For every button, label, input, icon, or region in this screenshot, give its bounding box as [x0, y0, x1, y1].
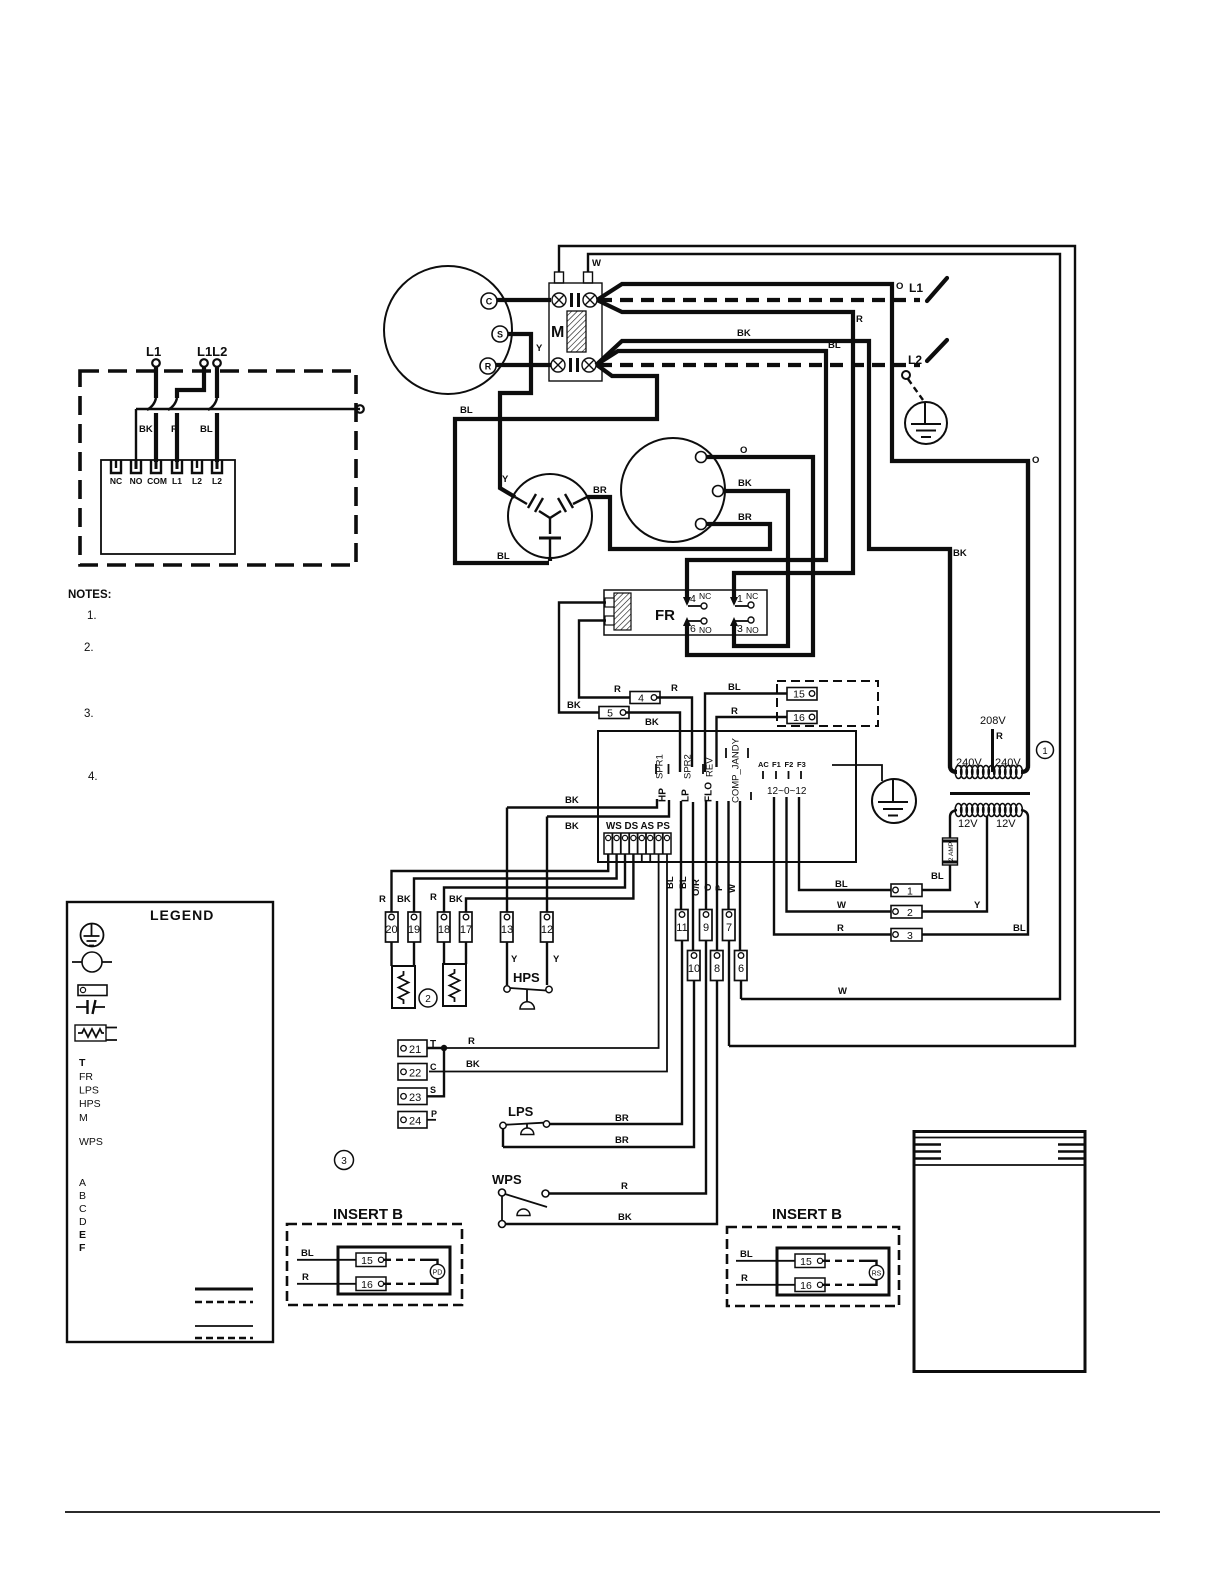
transformer primary right lead	[1021, 461, 1028, 772]
switch blade L2	[927, 340, 947, 361]
ground symbol mid right	[872, 779, 916, 823]
nameplate header line 1	[914, 1137, 1085, 1139]
svg-text:5: 5	[607, 708, 613, 720]
svg-text:R: R	[621, 1181, 628, 1192]
terminal L2	[212, 460, 222, 473]
svg-text:R: R	[731, 706, 738, 717]
svg-text:WPS: WPS	[492, 1172, 522, 1187]
svg-text:R: R	[671, 683, 678, 694]
svg-text:BL: BL	[728, 682, 741, 693]
svg-text:12: 12	[541, 924, 553, 936]
svg-text:BL: BL	[828, 340, 841, 351]
svg-text:WS DS AS PS: WS DS AS PS	[606, 821, 670, 832]
terminal 18	[438, 912, 451, 942]
insert terminals dashed box	[777, 681, 878, 726]
wire terminal 7 down to right loop	[728, 941, 730, 1047]
svg-text:O: O	[896, 281, 903, 292]
svg-text:7: 7	[726, 922, 732, 934]
wire R strip cell7 to T junction	[444, 854, 659, 1048]
node junction dot right of enclosure	[356, 405, 364, 413]
insert B left dashed links	[384, 1259, 424, 1261]
terminal 9	[700, 910, 713, 941]
heater element right	[443, 964, 466, 1006]
node L2 ground terminal	[902, 371, 910, 379]
svg-text:13: 13	[501, 924, 513, 936]
svg-text:24: 24	[409, 1116, 421, 1128]
wire strip cell4 to terminal 17	[466, 854, 633, 913]
svg-text:2 AMP: 2 AMP	[948, 842, 955, 861]
wire W top frame inner to terminal 6 loop	[588, 254, 1060, 999]
wire BR from run cap to blower	[587, 497, 770, 549]
insert B left terminal 16	[356, 1277, 386, 1291]
terminal 24	[398, 1112, 427, 1129]
transformer secondary center tap Y to terminal 2	[922, 816, 987, 912]
node L1 supply terminal	[152, 359, 160, 367]
wire O/R board FLO to terminal 9	[705, 801, 707, 910]
wire BK strip cell8 to terminal 22	[429, 854, 667, 1072]
wire BL board to terminal 15	[705, 694, 787, 773]
terminal 16	[787, 711, 817, 724]
terminal 7	[723, 910, 736, 941]
svg-text:6: 6	[690, 623, 696, 635]
legend terminal box symbol	[78, 985, 107, 996]
svg-text:C: C	[486, 297, 493, 307]
svg-text:BR: BR	[593, 485, 607, 496]
note marker 1	[1037, 742, 1054, 759]
wire dashed to ground	[908, 379, 923, 400]
svg-text:R: R	[468, 1036, 475, 1047]
wire P board COMP to terminal 7	[727, 801, 729, 910]
wire R board to terminal 16	[717, 717, 788, 767]
svg-text:HPS: HPS	[513, 970, 540, 985]
svg-text:COM: COM	[147, 476, 167, 486]
wire strip cell1 to terminal 20	[392, 854, 609, 913]
transformer secondary coil	[955, 804, 1022, 817]
svg-text:3.: 3.	[84, 708, 94, 720]
time clock terminal box	[101, 460, 235, 554]
svg-text:L2: L2	[192, 476, 202, 486]
terminal 1	[891, 884, 922, 897]
wire BK from L1 through switch to COM	[154, 367, 158, 398]
svg-text:2: 2	[907, 907, 913, 919]
svg-text:L2: L2	[212, 476, 222, 486]
wire 23 to T junction	[427, 1048, 444, 1096]
svg-text:W: W	[838, 986, 847, 997]
svg-text:O/R: O/R	[691, 879, 702, 896]
wire R from contactor top to FR contact 1NC	[597, 300, 853, 599]
svg-text:LPS: LPS	[79, 1085, 99, 1097]
wire Y terminal 13 to HPS	[506, 942, 508, 985]
svg-text:INSERT B: INSERT B	[333, 1206, 403, 1223]
wire terminal 5 to board pin SPR2 left	[626, 713, 680, 773]
svg-text:8: 8	[714, 963, 720, 975]
terminal NC	[111, 460, 121, 473]
wire strip cell5 stub	[641, 854, 643, 861]
svg-text:A: A	[79, 1177, 86, 1189]
run capacitor bottom section	[549, 518, 551, 558]
terminal COM	[151, 460, 161, 473]
contactor M box	[549, 283, 602, 381]
svg-text:Y: Y	[511, 954, 518, 965]
svg-text:BL: BL	[835, 879, 848, 890]
wire Y from S to run capacitor	[500, 334, 531, 497]
wire run cap loop from contactor bottom	[455, 365, 657, 563]
contactor coil stub left	[555, 272, 564, 283]
wire R to contactor	[496, 363, 551, 367]
svg-text:BK: BK	[738, 478, 752, 489]
svg-text:22: 22	[409, 1068, 421, 1080]
board terminal strip WS DS AS PS	[604, 833, 671, 854]
contactor contact top	[572, 293, 579, 307]
legend line sample thin	[195, 1325, 253, 1327]
motor terminal R	[480, 358, 496, 374]
svg-text:BL: BL	[301, 1248, 314, 1259]
terminal 21	[398, 1040, 427, 1057]
svg-text:T: T	[79, 1057, 86, 1069]
wire L2 dashed feed	[599, 363, 920, 367]
transformer primary coil	[955, 766, 1022, 779]
terminal NO	[131, 460, 141, 473]
svg-text:BK: BK	[397, 894, 411, 905]
svg-text:R: R	[837, 923, 844, 934]
svg-text:Y: Y	[502, 474, 509, 485]
svg-text:SPR2: SPR2	[683, 754, 694, 779]
wire 24 stub	[427, 1119, 436, 1121]
motor terminal S	[492, 326, 508, 342]
wire BK lower-left2 to HP pin right	[547, 800, 669, 817]
wire W board COMP to terminal 6	[739, 801, 741, 951]
wire NO branch horizontal	[136, 409, 360, 462]
svg-text:L1: L1	[172, 476, 182, 486]
insert B right dashed links	[823, 1260, 863, 1262]
terminal 22	[398, 1064, 427, 1081]
wire cap bottom to BL run	[548, 558, 552, 561]
svg-text:C: C	[430, 1062, 437, 1072]
svg-text:B: B	[79, 1190, 86, 1202]
wire BK terminal 8 to WPS return	[506, 981, 717, 1225]
svg-text:BL: BL	[931, 871, 944, 882]
svg-text:9: 9	[703, 922, 709, 934]
wire L1 dashed feed	[599, 298, 920, 302]
wire BL board LP to terminal 10	[692, 802, 694, 951]
terminal 4	[630, 692, 660, 704]
nameplate header line 2	[914, 1164, 1085, 1166]
blower terminal O	[696, 452, 707, 463]
wire FR coil lower to terminal 4	[579, 621, 630, 698]
svg-text:6: 6	[738, 963, 744, 975]
wire strip cell3 to terminal 18	[444, 854, 625, 913]
wire BR terminal 10 to LPS return	[503, 981, 694, 1148]
svg-text:R: R	[996, 731, 1003, 742]
legend line sample thick	[195, 1288, 253, 1291]
wire LPS left contact return	[502, 1129, 504, 1147]
wire BK from contactor bottom to transformer primary left	[596, 341, 950, 768]
terminal 11	[676, 910, 689, 941]
svg-text:4.: 4.	[88, 771, 98, 783]
blower motor circle	[621, 438, 725, 542]
terminal 15	[787, 688, 817, 701]
svg-text:S: S	[430, 1085, 436, 1095]
svg-text:R: R	[430, 892, 437, 903]
wire strip cell6 stub	[649, 854, 651, 861]
svg-text:P: P	[714, 884, 725, 891]
svg-text:3: 3	[341, 1156, 347, 1167]
legend capacitor symbol	[76, 1006, 105, 1008]
svg-text:BK: BK	[565, 821, 579, 832]
svg-text:O: O	[740, 445, 747, 456]
svg-text:12V: 12V	[958, 818, 978, 830]
blower terminal BR	[696, 519, 707, 530]
svg-text:NC: NC	[746, 591, 758, 601]
insert B right inner box	[777, 1248, 889, 1295]
wire W terminal 6 down to right loop	[740, 981, 742, 1000]
svg-text:BK: BK	[565, 795, 579, 806]
svg-text:NO: NO	[746, 625, 759, 635]
svg-text:E: E	[79, 1229, 86, 1241]
motor M circle	[384, 266, 512, 394]
control board outline	[598, 731, 856, 862]
terminal 20	[386, 912, 399, 942]
bottom rule	[65, 1511, 1160, 1513]
wire BL board LP to terminal 11	[680, 801, 682, 910]
svg-text:NC: NC	[110, 476, 122, 486]
terminal 13	[501, 912, 514, 942]
FR contact 4 NC	[688, 605, 701, 607]
run capacitor left section	[515, 497, 550, 518]
svg-text:3: 3	[907, 930, 913, 942]
wire R from L1 through switch to terminal L1	[177, 367, 204, 398]
time clock dashed enclosure	[80, 371, 356, 565]
insert B right wire BL	[736, 1260, 795, 1262]
contactor terminal top-right	[583, 293, 597, 307]
svg-text:BK: BK	[567, 700, 581, 711]
svg-text:BR: BR	[738, 512, 752, 523]
svg-text:P: P	[431, 1109, 437, 1119]
svg-text:W: W	[592, 258, 601, 269]
svg-text:L1: L1	[909, 281, 923, 295]
svg-text:4: 4	[690, 593, 696, 605]
transformer core separator	[950, 792, 1030, 795]
insert B right terminal 16	[795, 1278, 825, 1292]
legend terminal node symbol	[82, 952, 102, 972]
wire O board FLO to terminal 8	[716, 801, 718, 951]
svg-text:17: 17	[460, 924, 472, 936]
wire R board F1 to terminal 3	[774, 797, 891, 935]
legend line sample dashed1	[195, 1301, 253, 1303]
note marker 3	[335, 1151, 354, 1170]
svg-text:F: F	[79, 1242, 86, 1254]
svg-text:HP: HP	[658, 788, 669, 802]
svg-text:4: 4	[638, 693, 644, 705]
switch blade L1	[927, 278, 947, 301]
svg-text:BL: BL	[740, 1249, 753, 1260]
svg-text:1: 1	[1042, 746, 1047, 757]
legend heater symbol	[75, 1025, 106, 1041]
board pin column SPR1 HP	[656, 764, 669, 774]
terminal 3	[891, 929, 922, 942]
contactor coil	[567, 311, 586, 352]
wire terminal 4 to board pin SPR2	[657, 698, 692, 768]
svg-text:LP: LP	[681, 789, 692, 802]
svg-text:1.: 1.	[87, 610, 97, 622]
svg-text:COMP_JANDY: COMP_JANDY	[731, 737, 742, 803]
run capacitor right section	[550, 497, 587, 518]
insert B left PD lamp	[430, 1264, 444, 1278]
svg-text:R: R	[856, 314, 863, 325]
svg-text:BK: BK	[466, 1059, 480, 1070]
svg-text:16: 16	[361, 1279, 373, 1291]
svg-text:F2: F2	[785, 760, 794, 769]
wire FR coil upper to terminal 5	[559, 603, 606, 713]
svg-text:F1: F1	[772, 760, 781, 769]
svg-text:D: D	[79, 1216, 87, 1228]
svg-text:BK: BK	[645, 717, 659, 728]
svg-text:M: M	[79, 1112, 88, 1124]
svg-text:L1: L1	[146, 344, 161, 359]
svg-text:AC: AC	[758, 760, 769, 769]
svg-text:R: R	[171, 424, 178, 435]
svg-text:M: M	[551, 324, 564, 341]
terminal 6	[735, 951, 748, 981]
svg-text:15: 15	[793, 689, 805, 701]
svg-text:240V: 240V	[995, 757, 1021, 769]
svg-text:R: R	[741, 1273, 748, 1284]
node L1L2 supply terminals	[200, 359, 208, 367]
svg-text:2.: 2.	[84, 642, 94, 654]
wire BK terminal 13 up to board HP	[506, 808, 508, 913]
svg-text:BR: BR	[615, 1135, 629, 1146]
insert B left terminal 15	[356, 1253, 386, 1267]
contactor terminal top-left	[552, 293, 566, 307]
svg-text:BK: BK	[618, 1212, 632, 1223]
svg-text:Y: Y	[974, 900, 981, 911]
svg-text:BL: BL	[497, 551, 510, 562]
board pin column REV FLO	[702, 764, 704, 774]
insert B left dashed box	[287, 1224, 462, 1305]
insert B left wire BL	[297, 1259, 356, 1261]
nameplate box bottom right	[914, 1132, 1085, 1372]
svg-text:NO: NO	[699, 625, 712, 635]
svg-text:RS: RS	[872, 1271, 882, 1278]
FR contact 1 NC	[735, 605, 748, 607]
heater element left	[392, 966, 415, 1008]
wire BL from contactor bottom to FR contact 4NC	[596, 351, 826, 599]
terminal 23	[398, 1088, 427, 1105]
svg-text:R: R	[302, 1272, 309, 1283]
svg-text:NC: NC	[699, 591, 711, 601]
svg-text:W: W	[837, 900, 846, 911]
svg-text:12V: 12V	[996, 818, 1016, 830]
transformer secondary right lead BL to terminal 3	[922, 810, 1028, 935]
svg-text:O: O	[703, 884, 714, 891]
transformer 208V tap	[991, 729, 994, 772]
svg-text:F3: F3	[797, 760, 806, 769]
FR coil stub lower	[605, 616, 614, 625]
svg-text:BK: BK	[449, 894, 463, 905]
svg-text:BL: BL	[1013, 923, 1026, 934]
contactor terminal bottom-right	[582, 358, 596, 372]
wire R terminal 9 to WPS	[549, 941, 706, 1194]
svg-text:16: 16	[800, 1280, 812, 1292]
svg-text:R: R	[379, 894, 386, 905]
svg-text:FR: FR	[79, 1071, 93, 1083]
wire top frame outer to terminal 7 loop	[559, 246, 1075, 1046]
wire BL fuse to terminal 1	[922, 865, 950, 890]
svg-text:FLO: FLO	[704, 782, 715, 802]
svg-text:11: 11	[676, 922, 687, 934]
run capacitor circle	[508, 474, 592, 558]
svg-text:19: 19	[408, 924, 420, 936]
motor terminal C	[481, 293, 497, 309]
ground symbol top right	[905, 402, 947, 444]
terminal 10	[688, 951, 701, 981]
svg-text:12~0~12: 12~0~12	[767, 786, 807, 797]
wire BL board F3 to terminal 1	[799, 797, 891, 890]
svg-text:BL: BL	[665, 876, 676, 889]
insert B right wire R	[736, 1284, 795, 1286]
svg-text:L2: L2	[908, 353, 922, 367]
blower terminal BK	[713, 486, 724, 497]
svg-text:Y: Y	[553, 954, 560, 965]
svg-text:R: R	[485, 362, 492, 372]
svg-text:WPS: WPS	[79, 1136, 103, 1148]
terminal L2 unused	[192, 460, 202, 473]
svg-text:FR: FR	[655, 607, 675, 624]
fan relay FR box	[604, 590, 767, 635]
legend line sample dashed2	[195, 1337, 253, 1339]
wire strip cell2 to terminal 19	[414, 854, 617, 913]
FR coil stub upper	[605, 598, 614, 607]
wire BK terminal 12 up to board HP right	[546, 817, 548, 913]
svg-text:O: O	[1032, 455, 1039, 466]
insert B left wire R	[297, 1283, 356, 1285]
svg-text:23: 23	[409, 1092, 421, 1104]
svg-text:3: 3	[737, 623, 743, 635]
terminal 2	[891, 906, 922, 919]
wire BK lower-left to HP pin	[507, 799, 657, 808]
svg-text:1: 1	[907, 886, 913, 898]
transformer primary left lead	[950, 549, 957, 772]
svg-text:BL: BL	[678, 876, 689, 889]
wire Y terminal 12 to HPS	[546, 942, 548, 985]
legend box	[67, 902, 273, 1342]
wire O from contactor top to transformer primary right	[597, 284, 1028, 768]
svg-text:2: 2	[425, 994, 431, 1005]
wire O blower to FR contact 6NO	[687, 457, 813, 655]
wire 21 to T junction	[427, 1047, 444, 1049]
svg-text:BR: BR	[615, 1113, 629, 1124]
svg-text:PD: PD	[433, 1270, 443, 1277]
svg-text:16: 16	[793, 712, 805, 724]
svg-text:240V: 240V	[956, 757, 982, 769]
contactor coil stub right	[584, 272, 593, 283]
wire C to contactor	[497, 298, 551, 302]
contactor terminal bottom-left	[551, 358, 565, 372]
svg-text:BL: BL	[460, 405, 473, 416]
svg-text:LEGEND: LEGEND	[150, 907, 214, 923]
wire BR terminal 11 to LPS	[550, 941, 682, 1125]
wire BL from L2 through switch to terminal L2	[215, 367, 219, 398]
svg-text:20: 20	[385, 924, 397, 936]
svg-text:NOTES:: NOTES:	[68, 589, 111, 601]
terminal 19	[408, 912, 421, 942]
svg-text:21: 21	[409, 1044, 421, 1056]
wire board to chassis ground	[832, 765, 882, 781]
legend ground symbol	[81, 924, 104, 947]
svg-text:1: 1	[737, 593, 743, 605]
svg-text:LPS: LPS	[508, 1104, 534, 1119]
terminal L1	[172, 460, 182, 473]
